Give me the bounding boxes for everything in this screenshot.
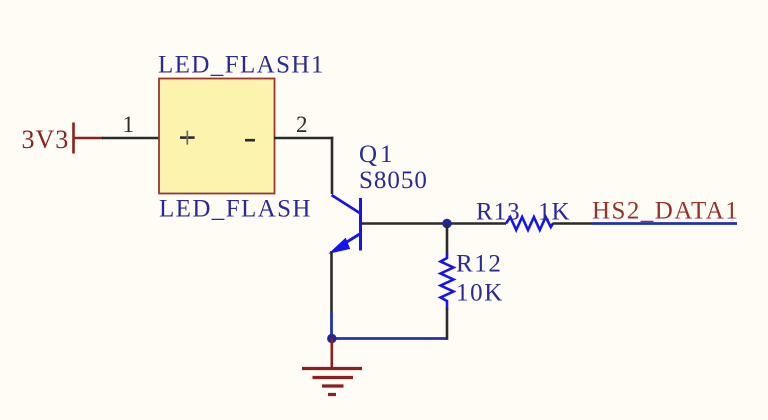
svg-text:1K: 1K xyxy=(538,199,571,226)
wire bottom horizontal xyxy=(332,337,448,340)
svg-text:3V3: 3V3 xyxy=(22,125,70,154)
wire pin 1 xyxy=(102,137,159,140)
node junction ground xyxy=(327,334,336,343)
resistor R12 xyxy=(441,254,454,310)
svg-text:S8050: S8050 xyxy=(359,167,428,194)
wire pin 2 xyxy=(274,137,333,140)
component LED_FLASH1 body xyxy=(159,79,275,194)
transistor Q1 xyxy=(330,195,361,253)
svg-text:HS2_DATA1: HS2_DATA1 xyxy=(592,198,739,225)
node junction base xyxy=(442,219,451,228)
svg-text:2: 2 xyxy=(296,112,308,137)
svg-text:1: 1 xyxy=(123,112,135,137)
svg-text:LED_FLASH: LED_FLASH xyxy=(159,196,312,223)
wire down to collector xyxy=(331,137,334,194)
wire resistor to net label xyxy=(553,222,593,225)
svg-text:R12: R12 xyxy=(456,251,502,278)
ground stem xyxy=(330,339,333,369)
pin name + xyxy=(180,131,195,145)
wire junction to resistor R13 xyxy=(448,222,506,225)
power port 3V3 bar xyxy=(74,123,104,154)
wire under net label xyxy=(592,222,737,225)
wire base to junction xyxy=(362,222,448,225)
svg-text:Q1: Q1 xyxy=(359,141,396,168)
svg-text:10K: 10K xyxy=(456,280,504,307)
wire emitter down xyxy=(330,251,333,312)
resistor R13 xyxy=(506,217,553,230)
wire junction down to R12 xyxy=(446,224,449,256)
svg-text:LED_FLASH1: LED_FLASH1 xyxy=(158,52,325,79)
svg-text:R13: R13 xyxy=(476,199,521,226)
wire to ground junction xyxy=(330,312,333,339)
pin name - xyxy=(245,139,255,142)
ground xyxy=(302,369,362,395)
wire R12 to bottom xyxy=(446,308,449,340)
